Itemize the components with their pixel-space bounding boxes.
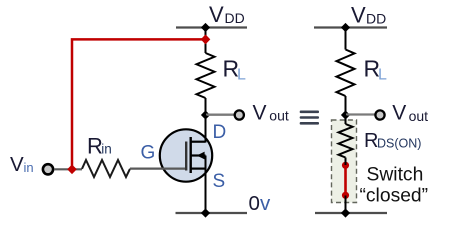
wire resistor to switch contact	[345, 158, 347, 166]
node VDD junction dot (left)	[201, 23, 210, 32]
wire source/body: arrow junction down to bottom rail	[205, 156, 207, 214]
wire bottom rail (right)	[315, 212, 387, 214]
node Vout junction dot (left)	[201, 110, 210, 119]
wire drain: Vout node down to drain stub	[205, 115, 207, 143]
svg-text:V: V	[10, 153, 24, 176]
svg-text:DD: DD	[366, 10, 386, 26]
equivalence symbol	[300, 111, 319, 125]
wire Rin to gate	[130, 168, 185, 170]
svg-text:Switch: Switch	[367, 164, 424, 185]
wire switch to bottom rail (right)	[345, 196, 347, 214]
transistor Q1 body stub with arrow	[191, 154, 206, 156]
node VDD junction dot (right)	[341, 23, 350, 32]
wire Vin to Rin	[54, 168, 82, 170]
wire VDD top rail (right circuit)	[314, 26, 387, 28]
resistor RDS(ON)	[339, 124, 353, 158]
svg-text:out: out	[409, 108, 429, 124]
node red junction at VDD/RL (left)	[201, 34, 211, 44]
node ground junction dot (left)	[201, 208, 210, 217]
resistor Rin	[82, 160, 130, 177]
transistor Q1 MOSFET body circle	[160, 129, 212, 181]
wire red feedback from Vin node to VDD node (left circuit)	[72, 39, 206, 169]
svg-text:V: V	[253, 102, 267, 125]
svg-text:V: V	[351, 3, 366, 28]
node red junction at Vin/Rin (left)	[67, 165, 77, 175]
svg-text:in: in	[101, 141, 112, 156]
switch equivalent dashed box	[332, 120, 357, 203]
wire VDD rail to resistor RL (right)	[345, 28, 347, 50]
svg-text:L: L	[237, 66, 246, 83]
svg-text:L: L	[378, 66, 387, 83]
resistor RL (right)	[337, 50, 355, 97]
svg-text:0: 0	[249, 192, 260, 215]
terminal Vin	[43, 164, 53, 174]
node ground junction dot (right)	[341, 208, 350, 217]
transistor Q1 channel bar	[189, 137, 191, 173]
wire Vout stub (left)	[206, 114, 234, 116]
svg-text:“closed”: “closed”	[360, 186, 429, 207]
svg-text:S: S	[213, 171, 226, 192]
transistor Q1 gate bar	[185, 142, 187, 171]
svg-text:in: in	[24, 160, 34, 175]
transistor Q1 drain stub	[191, 141, 206, 143]
terminal Vout (left)	[235, 110, 244, 119]
wire VDD top rail (left circuit)	[176, 26, 247, 28]
svg-text:DD: DD	[225, 10, 245, 26]
wire 0V bottom rail (left)	[176, 212, 248, 214]
node Vout junction dot (right)	[341, 110, 350, 119]
svg-text:DS(ON): DS(ON)	[377, 136, 421, 150]
resistor RL (left)	[197, 53, 215, 98]
svg-text:G: G	[141, 143, 156, 164]
wire vertical from VDD rail to resistor RL (left)	[205, 28, 207, 54]
wire Vout stub (right)	[346, 113, 375, 115]
wire resistor RL to Vout node (left)	[205, 98, 207, 115]
transistor Q1 source stub	[191, 168, 206, 170]
svg-text:v: v	[260, 192, 271, 215]
terminal Vout (right)	[375, 110, 384, 119]
svg-text:D: D	[213, 122, 227, 143]
svg-text:V: V	[392, 102, 406, 125]
svg-text:out: out	[269, 107, 289, 123]
wire Vout node into box (right)	[345, 115, 347, 124]
wire resistor RL to Vout node (right)	[345, 96, 347, 115]
svg-text:V: V	[209, 2, 224, 27]
switch closed red contact	[344, 165, 347, 195]
